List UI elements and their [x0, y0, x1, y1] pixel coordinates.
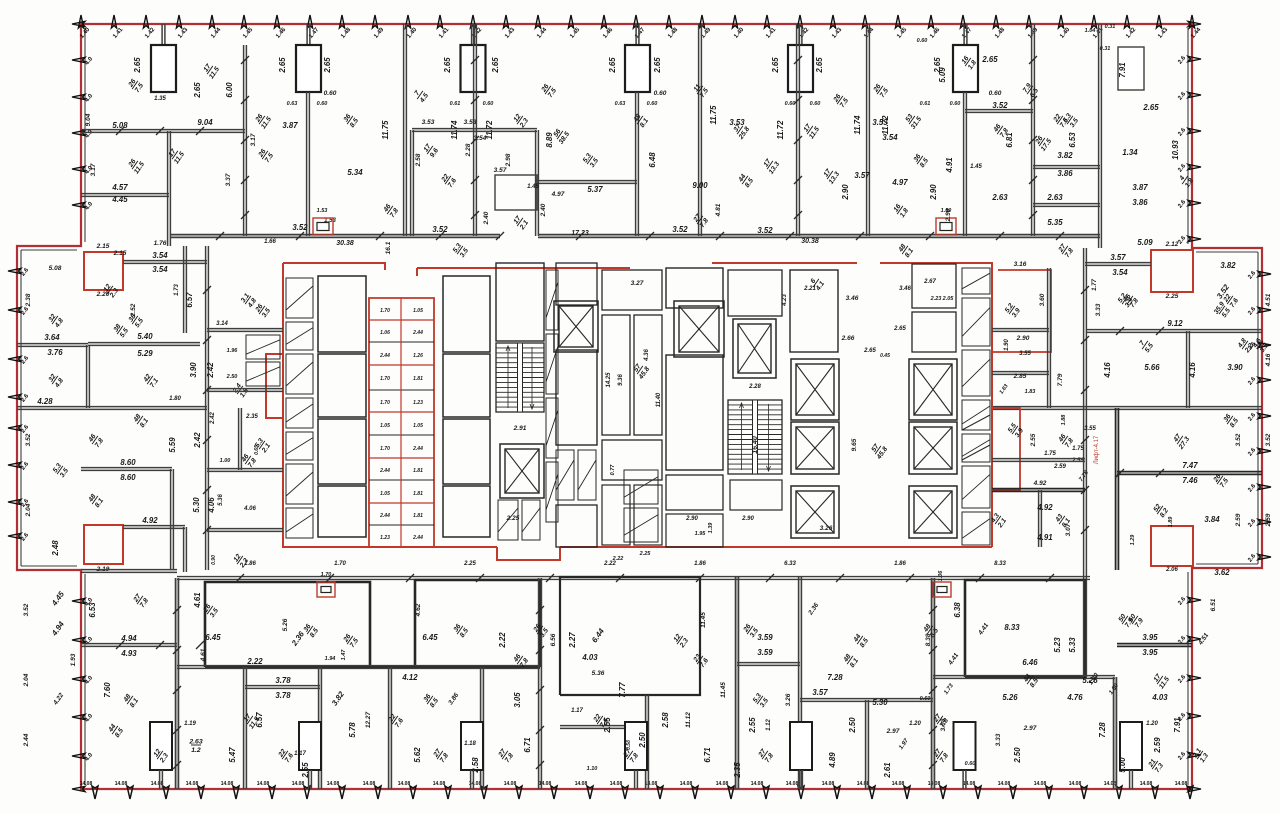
svg-text:4.92: 4.92	[1036, 503, 1053, 512]
svg-text:2.63: 2.63	[991, 193, 1008, 202]
pod wall	[369, 524, 434, 526]
svg-text:0.60: 0.60	[654, 90, 667, 97]
boundary tick mark	[72, 714, 85, 719]
boundary tick mark	[1258, 519, 1271, 524]
stair lobby	[496, 263, 544, 341]
svg-text:4.36: 4.36	[644, 349, 650, 362]
svg-text:6.51: 6.51	[1210, 598, 1217, 611]
svg-text:5.08: 5.08	[112, 121, 128, 130]
elevator E10	[909, 486, 957, 538]
boundary tick mark	[1058, 15, 1063, 28]
svg-text:1.80: 1.80	[169, 396, 181, 402]
pod wall	[369, 341, 434, 343]
svg-text:4.92: 4.92	[1033, 480, 1047, 487]
bottom window column	[954, 722, 976, 770]
svg-text:1.81: 1.81	[413, 376, 423, 382]
svg-text:9.00: 9.00	[692, 181, 708, 190]
svg-text:8.60: 8.60	[120, 458, 136, 467]
elevator E6	[791, 422, 839, 474]
area label 4.8/2.2	[1236, 337, 1255, 355]
svg-text:5.30: 5.30	[192, 497, 201, 513]
svg-text:0.63: 0.63	[287, 101, 298, 107]
svg-text:7.91: 7.91	[1173, 717, 1182, 732]
partition wall	[866, 700, 869, 789]
area label 22/7.6	[1052, 112, 1070, 129]
svg-text:1.06: 1.06	[938, 570, 944, 582]
partition wall	[799, 577, 802, 789]
svg-text:2.44: 2.44	[379, 468, 390, 474]
svg-text:2.65: 2.65	[193, 82, 202, 99]
svg-text:14.08: 14.08	[80, 781, 93, 787]
boundary tick mark	[551, 786, 557, 799]
boundary tick mark	[92, 786, 98, 799]
boundary tick mark	[764, 15, 769, 28]
big room walls (bottom right)	[965, 580, 1085, 677]
area label 32/4.8	[46, 372, 65, 390]
svg-text:16.1: 16.1	[385, 241, 392, 254]
area label 12/2.3	[231, 552, 250, 570]
svg-text:2.65: 2.65	[653, 57, 662, 74]
svg-text:3.52: 3.52	[292, 223, 308, 232]
corner tick top-left	[72, 21, 85, 26]
vent slot	[286, 432, 313, 460]
area label 47/27.3	[1170, 431, 1191, 452]
svg-text:14.08: 14.08	[398, 781, 411, 787]
area label 48/8.5	[922, 622, 940, 639]
partition wall	[736, 577, 739, 789]
partition wall	[1114, 677, 1117, 789]
shaft	[666, 355, 723, 470]
boundary tick mark	[732, 15, 737, 28]
room	[556, 505, 597, 547]
area label 5.2/3.9	[1117, 292, 1135, 309]
svg-text:2.35: 2.35	[733, 762, 742, 779]
svg-text:2.65: 2.65	[491, 57, 500, 74]
svg-text:5.47: 5.47	[228, 747, 237, 763]
svg-text:14.08: 14.08	[257, 781, 270, 787]
svg-text:11.74: 11.74	[853, 115, 862, 135]
vent slot	[546, 334, 558, 394]
boundary tick mark	[72, 676, 85, 681]
area label 5.3/3.5	[452, 242, 470, 259]
svg-text:1.88: 1.88	[1061, 414, 1067, 426]
area label 53/31.5	[903, 111, 923, 131]
boundary tick mark	[143, 15, 148, 28]
svg-text:1.05: 1.05	[413, 308, 423, 314]
svg-text:14.08: 14.08	[610, 781, 623, 787]
svg-text:5.36: 5.36	[592, 670, 605, 677]
window stem	[160, 770, 163, 789]
svg-text:14.08: 14.08	[892, 781, 905, 787]
svg-text:0.60: 0.60	[810, 101, 821, 107]
room	[730, 480, 782, 510]
svg-text:7.60: 7.60	[103, 682, 112, 698]
svg-text:2.63: 2.63	[188, 739, 202, 746]
vent slot	[286, 508, 313, 538]
area label 50/7.9	[1127, 612, 1145, 629]
area label 4.3/2.1	[989, 512, 1008, 530]
structural column	[953, 45, 978, 92]
boundary tick mark	[72, 598, 85, 603]
pod wall red	[369, 319, 434, 321]
svg-text:3.53: 3.53	[464, 119, 477, 126]
core boundary notch	[266, 354, 283, 418]
boundary tick mark	[72, 130, 85, 135]
boundary tick mark	[72, 202, 85, 207]
svg-text:3.52: 3.52	[432, 225, 448, 234]
svg-text:1.86: 1.86	[694, 561, 706, 567]
boundary tick mark	[72, 166, 85, 171]
wall	[184, 527, 187, 572]
wall	[1087, 330, 1262, 333]
svg-text:1.29: 1.29	[1130, 534, 1136, 546]
boundary tick mark	[8, 499, 21, 504]
svg-text:3.59: 3.59	[757, 648, 773, 657]
svg-text:5.36: 5.36	[218, 494, 224, 506]
svg-text:2.65: 2.65	[815, 57, 824, 74]
svg-text:3.90: 3.90	[189, 362, 198, 378]
wall	[1033, 204, 1100, 207]
area label 2.63/1.2	[188, 739, 202, 755]
small room	[495, 175, 537, 210]
svg-text:1.90: 1.90	[1004, 339, 1010, 351]
vent slot	[962, 298, 990, 346]
area label 17/13.3	[821, 166, 841, 186]
svg-text:5.26: 5.26	[1002, 693, 1018, 702]
svg-text:0.60: 0.60	[989, 90, 1002, 97]
svg-text:2.25: 2.25	[463, 561, 476, 567]
svg-text:11.12: 11.12	[685, 712, 692, 728]
area label 26/7.5	[832, 92, 850, 109]
vent slot	[578, 450, 596, 500]
vent slot	[546, 398, 558, 458]
structural column	[788, 45, 813, 92]
wall	[207, 529, 283, 532]
svg-text:3.52: 3.52	[1265, 433, 1272, 446]
area label 44/8.5	[1022, 672, 1040, 689]
room	[666, 475, 723, 510]
svg-text:11.72: 11.72	[776, 120, 785, 140]
closet slot	[246, 362, 280, 386]
room	[602, 485, 630, 545]
svg-text:1.70: 1.70	[380, 376, 390, 382]
svg-text:14.08: 14.08	[504, 781, 517, 787]
boundary tick mark	[516, 786, 522, 799]
svg-text:9.65: 9.65	[851, 438, 858, 451]
svg-text:4.89: 4.89	[828, 752, 837, 769]
bottom window column	[461, 722, 483, 770]
svg-text:14.08: 14.08	[115, 781, 128, 787]
svg-text:9.36: 9.36	[618, 374, 624, 386]
wall	[81, 468, 172, 471]
svg-text:0.31: 0.31	[1105, 24, 1116, 30]
shaft room	[443, 354, 490, 417]
svg-text:1.05: 1.05	[380, 423, 390, 429]
boundary tick mark	[8, 307, 21, 312]
area label 6/4.1	[807, 275, 826, 293]
room	[602, 270, 662, 310]
area label 38/5.5	[112, 322, 130, 339]
svg-text:14.08: 14.08	[786, 781, 799, 787]
window stem	[471, 770, 474, 789]
area label 4/1.8	[1177, 172, 1195, 189]
partition wall	[1099, 24, 1102, 248]
svg-text:1.20: 1.20	[909, 721, 921, 727]
partition wall	[307, 92, 310, 236]
svg-text:1.93: 1.93	[70, 653, 77, 666]
area label 36/8.5	[302, 622, 320, 639]
svg-text:1.00: 1.00	[220, 458, 231, 464]
area label 48/8.1	[87, 492, 105, 509]
partition wall	[646, 695, 649, 789]
shaft	[556, 350, 597, 445]
svg-text:14.08: 14.08	[221, 781, 234, 787]
vent slot	[286, 398, 313, 428]
svg-text:5.33: 5.33	[1068, 637, 1077, 653]
boundary tick mark	[1258, 484, 1271, 489]
svg-text:14.08: 14.08	[327, 781, 340, 787]
wall	[1187, 331, 1190, 408]
svg-text:3.54: 3.54	[152, 251, 168, 260]
area label 27/7.8	[497, 747, 515, 764]
svg-text:2.40: 2.40	[483, 211, 490, 225]
svg-text:0.60: 0.60	[917, 38, 928, 44]
boundary tick mark	[72, 57, 85, 62]
closet slot	[246, 335, 280, 359]
area label 27/7.8	[932, 747, 950, 764]
vent slot	[962, 400, 990, 430]
wall	[992, 372, 1049, 375]
corner tick bottom-right	[1188, 786, 1201, 791]
window box	[936, 218, 956, 235]
wall	[411, 130, 414, 236]
boundary tick mark	[960, 15, 965, 28]
boundary tick mark	[339, 15, 344, 28]
area label 17/11.5	[1151, 671, 1171, 690]
svg-text:7.28: 7.28	[1098, 722, 1107, 738]
bottom window column	[299, 722, 321, 770]
boundary tick mark	[405, 15, 410, 28]
wall	[1117, 472, 1262, 475]
svg-text:2.91: 2.91	[513, 425, 527, 432]
partition wall	[539, 578, 542, 789]
wall	[123, 526, 185, 529]
area label 42/7.1	[142, 372, 160, 389]
svg-text:6.71: 6.71	[523, 737, 532, 752]
svg-text:0.60: 0.60	[785, 101, 796, 107]
window stem	[162, 24, 165, 45]
wall	[992, 329, 1049, 332]
svg-text:2.42: 2.42	[206, 362, 215, 379]
svg-text:3.82: 3.82	[1057, 151, 1073, 160]
svg-text:1.81: 1.81	[413, 513, 423, 519]
boundary tick mark	[8, 268, 21, 273]
boundary tick mark	[601, 15, 606, 28]
svg-text:2.59: 2.59	[1153, 737, 1162, 754]
area label 26/7.5	[342, 632, 360, 649]
svg-text:2.15: 2.15	[96, 243, 110, 250]
boundary tick mark	[1258, 413, 1271, 418]
corner tick top-right	[1188, 21, 1201, 26]
boundary tick mark	[1258, 554, 1271, 559]
svg-text:2.97: 2.97	[886, 728, 900, 735]
svg-text:5.78: 5.78	[348, 722, 357, 738]
wall	[168, 131, 171, 246]
vent slot	[522, 500, 540, 540]
area label 22/7.6	[387, 712, 405, 729]
wall	[81, 644, 177, 647]
area label 46/7.8	[1122, 292, 1140, 309]
svg-text:2.90: 2.90	[841, 184, 850, 201]
svg-text:3.87: 3.87	[1132, 183, 1148, 192]
partition wall	[867, 24, 870, 236]
vent slot	[624, 470, 658, 504]
area label 17/11.5	[241, 711, 261, 730]
svg-text:1.35: 1.35	[154, 96, 166, 102]
area label 46/7.8	[1057, 432, 1075, 449]
svg-text:11.72: 11.72	[881, 115, 890, 135]
vent slot	[962, 512, 990, 545]
boundary tick mark	[1258, 448, 1271, 453]
svg-text:5.30: 5.30	[872, 698, 888, 707]
area label 36/8.5	[452, 622, 470, 639]
svg-text:0.61: 0.61	[450, 101, 461, 107]
svg-text:2.42: 2.42	[193, 432, 202, 449]
wall	[184, 246, 187, 333]
svg-text:14.08: 14.08	[292, 781, 305, 787]
svg-text:8.38: 8.38	[925, 633, 932, 646]
area label 11/7.5	[692, 82, 710, 99]
boundary tick mark	[1188, 752, 1201, 757]
window stem	[635, 770, 638, 789]
boundary tick mark	[1188, 56, 1201, 61]
boundary tick mark	[1187, 786, 1193, 799]
boundary tick mark	[198, 786, 204, 799]
boundary tick mark	[834, 786, 840, 799]
area label 4.6/3.5	[1251, 337, 1270, 355]
lobby	[666, 268, 723, 308]
svg-text:6.45: 6.45	[422, 633, 438, 642]
area label 12/2.3	[511, 112, 530, 130]
svg-text:1.70: 1.70	[380, 308, 390, 314]
boundary tick mark	[1188, 675, 1201, 680]
area label 44/8.5	[852, 632, 870, 649]
window stem	[472, 24, 475, 45]
boundary tick mark	[1188, 597, 1201, 602]
svg-text:1.39: 1.39	[708, 522, 714, 534]
svg-text:1.70: 1.70	[380, 400, 390, 406]
svg-text:1.83: 1.83	[1025, 389, 1036, 395]
area label 26/11.5	[126, 156, 146, 175]
svg-text:4.03: 4.03	[581, 653, 598, 662]
svg-text:9.04: 9.04	[197, 118, 213, 127]
area label 5.2/3.9	[1004, 302, 1022, 319]
svg-text:11.72: 11.72	[485, 120, 494, 140]
svg-text:14.08: 14.08	[575, 781, 588, 787]
area label 2.4/1.8	[231, 382, 250, 400]
bottom window column	[150, 722, 172, 770]
svg-text:3.33: 3.33	[1095, 303, 1102, 316]
svg-text:12.27: 12.27	[365, 711, 372, 728]
corner tick bottom-left	[72, 786, 85, 791]
window box	[317, 582, 335, 597]
boundary tick mark	[928, 15, 933, 28]
area label 17/11.5	[201, 61, 221, 80]
svg-text:2.44: 2.44	[412, 446, 423, 452]
shaft	[634, 315, 662, 435]
area label 46/7.8	[240, 452, 258, 469]
partition wall	[481, 667, 484, 789]
vent slot	[286, 322, 313, 350]
shaft	[790, 270, 838, 352]
svg-text:1.95: 1.95	[695, 531, 707, 537]
boundary tick mark	[111, 15, 116, 28]
boundary tick mark	[372, 15, 377, 28]
svg-text:1.73: 1.73	[174, 284, 180, 296]
structural column	[151, 45, 176, 92]
area label 27/7.8	[1057, 242, 1075, 259]
svg-text:2.65: 2.65	[443, 57, 452, 74]
boundary tick mark	[1258, 377, 1271, 382]
svg-text:3.78: 3.78	[275, 691, 291, 700]
svg-text:2.28: 2.28	[465, 143, 472, 157]
wall	[535, 181, 637, 184]
wall	[239, 408, 242, 470]
elevator E3	[674, 301, 724, 357]
svg-text:3.52: 3.52	[992, 101, 1008, 110]
svg-text:14.08: 14.08	[433, 781, 446, 787]
svg-text:1.53: 1.53	[317, 208, 328, 214]
boundary tick mark	[940, 786, 946, 799]
window stem	[963, 770, 966, 789]
wall	[737, 663, 800, 666]
svg-text:5.09: 5.09	[1137, 238, 1153, 247]
boundary tick mark	[1010, 786, 1016, 799]
svg-text:3.95: 3.95	[1142, 633, 1158, 642]
shaft room	[443, 276, 490, 352]
area label 56/38.5	[551, 126, 571, 146]
boundary tick mark	[8, 533, 21, 538]
svg-text:3.57: 3.57	[812, 688, 828, 697]
boundary tick mark	[1152, 786, 1158, 799]
boundary tick mark	[1081, 786, 1087, 799]
svg-text:14.08: 14.08	[151, 781, 164, 787]
boundary tick mark	[1188, 636, 1201, 641]
svg-text:1.12: 1.12	[766, 719, 772, 731]
window stem	[964, 24, 967, 45]
boundary tick mark	[862, 15, 867, 28]
svg-text:2.42: 2.42	[210, 412, 216, 425]
svg-text:3.26: 3.26	[820, 525, 833, 532]
window box	[933, 582, 951, 597]
area label 36/8.5	[1222, 412, 1240, 429]
partition wall	[964, 92, 967, 236]
svg-text:0.60: 0.60	[483, 101, 494, 107]
svg-text:7.47: 7.47	[1182, 461, 1198, 470]
svg-text:5.34: 5.34	[347, 168, 363, 177]
area label 17/9.6	[422, 142, 440, 159]
wall	[1116, 408, 1119, 570]
boundary tick mark	[176, 15, 181, 28]
area label 26/3.5	[202, 602, 220, 619]
svg-text:2.65: 2.65	[278, 57, 287, 74]
shaft room	[318, 419, 366, 484]
svg-text:4.61: 4.61	[193, 592, 202, 608]
svg-text:2.22: 2.22	[603, 561, 616, 567]
svg-text:2.44: 2.44	[379, 353, 390, 359]
svg-text:6.56: 6.56	[550, 633, 557, 646]
svg-text:1.17: 1.17	[571, 708, 583, 714]
